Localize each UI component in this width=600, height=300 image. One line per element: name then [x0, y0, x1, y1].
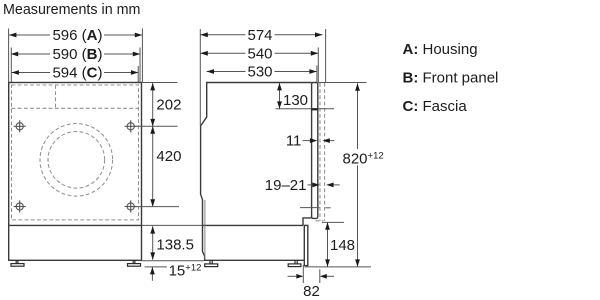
arrows 590 — [11, 52, 18, 57]
arrows 596 — [9, 33, 16, 38]
dim line 202 — [152, 83, 154, 126]
fascia divider dashed line — [12, 107, 139, 109]
front view feet — [11, 260, 141, 266]
screw mark bottom-right — [125, 200, 137, 212]
top ext line — [318, 82, 367, 84]
ext line machine top right — [143, 82, 178, 84]
plinth line side view — [203, 224, 304, 226]
svg-text:19–21: 19–21 — [265, 177, 307, 194]
floor line 15+12 — [145, 266, 167, 268]
svg-text:82: 82 — [303, 283, 320, 300]
side view feet — [205, 260, 301, 266]
inner back wall line — [204, 200, 206, 259]
svg-text:A: Housing: A: Housing — [403, 41, 478, 58]
svg-text:C: Fascia: C: Fascia — [403, 98, 468, 115]
detergent drawer dashed line — [55, 85, 57, 108]
dim line 420 — [152, 126, 154, 206]
dim line 590 — [11, 53, 50, 55]
dim line 574 — [200, 34, 245, 36]
hinge line — [300, 207, 319, 209]
arrows 138.5 — [150, 226, 155, 233]
dim text 820+12 — [341, 149, 382, 166]
arrows 530 — [207, 69, 214, 74]
svg-text:11: 11 — [286, 133, 302, 150]
svg-text:594 (C): 594 (C) — [52, 65, 102, 82]
plinth front panel — [304, 225, 308, 265]
hinge tick on front panel bar — [311, 108, 318, 110]
arrows 594 — [12, 70, 19, 75]
svg-text:590 (B): 590 (B) — [52, 46, 102, 63]
ext lines side right — [325, 29, 327, 82]
15+12 arrow stem — [151, 267, 153, 281]
dim line 594 — [12, 72, 51, 74]
svg-text:540: 540 — [247, 46, 272, 63]
screw mark bottom-left — [14, 200, 26, 212]
dim line 540 — [200, 52, 245, 54]
extension lines top-left — [8, 29, 10, 83]
ext line bottom screws — [132, 206, 179, 208]
svg-text:420: 420 — [156, 148, 181, 165]
screw mark top-left — [14, 120, 26, 132]
screw mark top-right — [125, 120, 137, 132]
arrows 420 — [150, 126, 155, 133]
drum outer dashed circle — [40, 124, 113, 197]
svg-text:138.5: 138.5 — [156, 237, 194, 254]
arrows 540 — [200, 51, 207, 56]
machine bottom projection line — [142, 260, 205, 262]
svg-text:574: 574 — [247, 27, 272, 44]
arrows 202 — [150, 83, 155, 90]
svg-text:15+12: 15+12 — [169, 262, 202, 279]
drum inner dashed circle — [48, 132, 105, 189]
floor line right — [305, 266, 372, 268]
arrow 15+12 — [150, 267, 155, 274]
svg-text:130: 130 — [283, 92, 308, 109]
dim line 530 — [207, 71, 246, 73]
side outline — [201, 83, 312, 261]
ext line side left — [199, 29, 201, 126]
ext lines 82 — [302, 265, 304, 283]
dim line 596 — [9, 34, 50, 36]
dim 11 — [303, 140, 335, 142]
svg-text:596 (A): 596 (A) — [52, 27, 102, 44]
dim 19-21 — [308, 184, 340, 186]
arrows 574 — [200, 32, 207, 37]
svg-text:202: 202 — [156, 97, 181, 114]
front panel dashed outline — [12, 85, 139, 220]
svg-text:148: 148 — [330, 237, 355, 254]
svg-text:Measurements in mm: Measurements in mm — [3, 2, 140, 18]
dim line 138.5 — [152, 226, 154, 260]
fascia dashed lines — [316, 83, 325, 221]
ext line top screws — [134, 125, 178, 127]
dim 82 — [288, 265, 335, 283]
right side vertical dims of front view — [132, 83, 205, 281]
plinth line front view — [9, 224, 142, 226]
svg-text:B: Front panel: B: Front panel — [403, 70, 499, 87]
extension lines top-right — [141, 29, 143, 83]
svg-text:530: 530 — [247, 64, 272, 81]
washer front outline — [9, 83, 142, 261]
plinth step — [303, 218, 312, 226]
front panel bar — [312, 83, 318, 219]
plinth projection line between views — [142, 224, 203, 226]
dim 148 — [305, 222, 372, 267]
dim 130 — [276, 83, 335, 109]
